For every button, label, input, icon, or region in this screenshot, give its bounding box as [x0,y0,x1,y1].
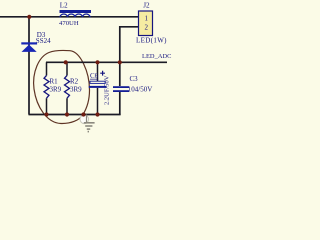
capacitor C3 bottom plate [113,90,129,92]
wire C6 leads [97,62,99,114]
svg-text:LED_ADC: LED_ADC [142,53,171,60]
capacitor C6 plus sign [100,71,105,76]
junction dot bottom C6 [95,112,99,116]
diode D3 triangle [22,45,37,52]
svg-text:SS24: SS24 [36,37,51,45]
junction dot rail R2 [64,60,68,64]
svg-text:3R9: 3R9 [50,85,62,93]
junction dot bottom R1 [44,112,48,116]
capacitor C6 top plate [90,81,105,83]
svg-text:1: 1 [145,14,149,22]
svg-text:C6: C6 [90,72,99,80]
capacitor C6 bottom plate [89,86,107,88]
svg-text:104/50V: 104/50V [128,86,153,94]
wire below C3 [119,92,121,116]
wire middle rail LED_ADC [46,61,167,63]
white circle blob [80,115,89,124]
svg-text:2.2UF/50V: 2.2UF/50V [104,75,111,105]
svg-text:2: 2 [145,24,149,32]
svg-text:L2: L2 [60,2,68,10]
svg-text:R2: R2 [70,78,79,86]
svg-text:470UH: 470UH [59,20,79,27]
junction dot top [27,15,31,19]
junction dot rail LED_ADC [118,60,122,64]
svg-text:J2: J2 [143,1,150,9]
wire left vertical [28,17,30,115]
junction dot bottom R2 [65,112,69,116]
connector J2 box [139,11,153,36]
inductor L2 bar [60,10,92,13]
wire J2 pin2 to LED_ADC vertical [120,27,139,86]
ellipse annotation (highlight oval) [34,50,90,123]
wire R2 leads [66,62,68,114]
wire top rail [0,16,139,18]
ground [84,115,95,132]
junction dot bottom ground [81,112,85,116]
resistor R1 zigzag [44,76,49,99]
diode D3 cathode bar [21,42,37,44]
inductor L2 coils [60,14,90,17]
wire bottom rail [29,114,121,116]
junction dot rail C6 [95,60,99,64]
capacitor C3 top plate [113,86,129,88]
svg-text:LED(1W): LED(1W) [136,37,167,45]
wire R1 leads [46,62,48,114]
svg-text:3R9: 3R9 [70,85,82,93]
resistor R2 zigzag [65,76,70,99]
svg-text:C3: C3 [130,75,139,83]
svg-text:R1: R1 [50,78,59,86]
